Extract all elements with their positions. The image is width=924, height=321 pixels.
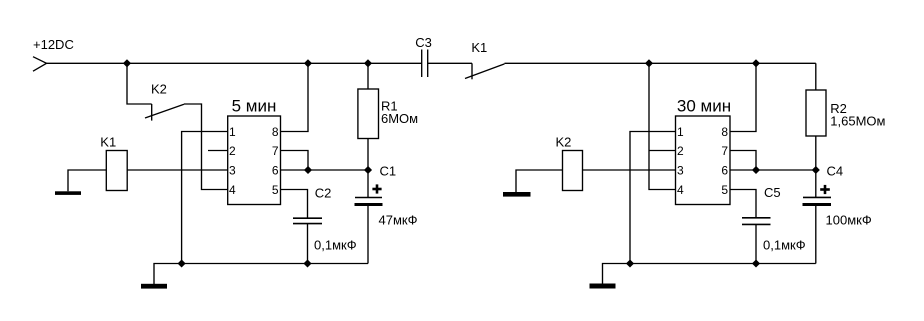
svg-text:3: 3 bbox=[229, 164, 236, 178]
svg-text:47мкФ: 47мкФ bbox=[379, 213, 418, 228]
wire IC1 pin2 stub bbox=[208, 150, 228, 152]
ground bbox=[503, 192, 531, 197]
node junction dot C5 rail bbox=[753, 260, 759, 266]
switch contact K1 bbox=[465, 63, 505, 79]
node junction dot R1/C1 bbox=[365, 167, 371, 173]
node junction dot R2/C4 bbox=[813, 167, 819, 173]
wire IC2 pin5 to C5 bbox=[730, 190, 756, 218]
ground bbox=[590, 284, 616, 289]
wire IC1 pin5 to C2 bbox=[281, 190, 308, 219]
wire K1 coil to ground bbox=[68, 170, 106, 191]
node junction dot at pin8 riser IC1 bbox=[305, 60, 311, 66]
svg-text:4: 4 bbox=[229, 183, 236, 197]
node C1 plus sign bbox=[372, 184, 381, 193]
wire IC2 pin1 to ground rail bbox=[630, 132, 676, 264]
wire right ground rail bbox=[603, 264, 816, 284]
svg-text:C2: C2 bbox=[315, 186, 332, 201]
svg-text:6: 6 bbox=[721, 164, 728, 178]
node +12DC input arrow bbox=[33, 57, 47, 71]
wire IC1 pin3 to relay coil K1 bbox=[127, 169, 228, 171]
svg-text:C1: C1 bbox=[380, 164, 397, 179]
ground bbox=[141, 284, 167, 289]
node junction dot at K2 branch bbox=[124, 60, 130, 66]
switch contact K2 bbox=[145, 104, 184, 121]
wire top rail from arrow to C3 bbox=[47, 62, 422, 64]
svg-text:+12DC: +12DC bbox=[33, 37, 74, 52]
wire IC1 pin6 to R1/C1 node bbox=[281, 169, 369, 171]
wire K2 contact output to IC1 pin4 bbox=[184, 104, 228, 190]
capacitor C1 polarized bbox=[355, 170, 383, 264]
op-amp U1 timer IC box (5 мин) bbox=[228, 116, 281, 205]
capacitor C3 bbox=[422, 50, 428, 78]
svg-text:C5: C5 bbox=[764, 185, 781, 200]
wire IC2 pin8 to top rail bbox=[730, 63, 756, 131]
ground bbox=[55, 191, 81, 195]
node junction dot at IC2 branch bbox=[646, 60, 652, 66]
svg-text:0,1мкФ: 0,1мкФ bbox=[314, 238, 357, 253]
svg-text:5: 5 bbox=[272, 183, 279, 197]
wire IC2 pin7 to pin6 node bbox=[730, 151, 756, 171]
node junction dot pin6/pin7 IC2 bbox=[753, 167, 759, 173]
svg-text:K2: K2 bbox=[556, 135, 572, 150]
svg-text:7: 7 bbox=[272, 144, 279, 158]
svg-text:1: 1 bbox=[229, 125, 236, 139]
svg-text:7: 7 bbox=[721, 144, 728, 158]
svg-text:2: 2 bbox=[677, 144, 684, 158]
capacitor C5 bbox=[742, 218, 771, 225]
svg-text:K1: K1 bbox=[100, 135, 116, 150]
node C4 plus sign bbox=[820, 185, 830, 194]
capacitor C2 bbox=[293, 218, 322, 223]
capacitor C4 polarized bbox=[803, 170, 832, 264]
wire K2 coil to ground bbox=[516, 170, 563, 192]
wire IC2 pin3 to relay coil K2 bbox=[583, 169, 676, 171]
resistor R1 bbox=[358, 63, 379, 170]
wire IC2 pin2 from branch bbox=[649, 150, 676, 152]
wire C5 to ground rail bbox=[755, 224, 757, 263]
svg-text:1: 1 bbox=[677, 125, 684, 139]
wire left ground rail bbox=[154, 264, 368, 285]
wire C2 to ground rail bbox=[307, 224, 309, 264]
svg-text:0,1мкФ: 0,1мкФ bbox=[763, 238, 806, 253]
resistor R2 bbox=[806, 63, 826, 170]
wire K2 branch down from top rail bbox=[127, 63, 152, 104]
svg-text:4: 4 bbox=[677, 183, 684, 197]
svg-text:3: 3 bbox=[677, 164, 684, 178]
node junction dot pin1 rail bbox=[179, 260, 185, 266]
svg-text:C4: C4 bbox=[827, 164, 844, 179]
wire IC1 pin1 to ground rail bbox=[182, 132, 228, 264]
svg-text:C3: C3 bbox=[415, 35, 432, 50]
svg-text:2: 2 bbox=[229, 144, 236, 158]
node junction dot C2 rail bbox=[304, 260, 310, 266]
svg-text:5: 5 bbox=[721, 183, 728, 197]
relay coil K1 bbox=[106, 151, 127, 191]
wire IC2 branch: top rail to pin2 and pin4 bbox=[649, 63, 676, 189]
svg-text:1,65МОм: 1,65МОм bbox=[830, 113, 885, 128]
svg-text:8: 8 bbox=[272, 125, 279, 139]
node junction dot at R1 top bbox=[365, 60, 371, 66]
relay coil K2 bbox=[563, 151, 583, 191]
svg-text:100мкФ: 100мкФ bbox=[826, 213, 872, 228]
node junction dot pin6/pin7 IC1 bbox=[305, 167, 311, 173]
wire IC2 pin6 to R2/C4 node bbox=[730, 169, 816, 171]
svg-text:30 мин: 30 мин bbox=[677, 97, 731, 116]
svg-text:6: 6 bbox=[272, 164, 279, 178]
wire C3 to K1 contact bbox=[428, 62, 472, 64]
node junction dot at pin8 riser IC2 bbox=[753, 60, 759, 66]
svg-text:K2: K2 bbox=[151, 81, 167, 96]
node junction dot IC2 pin1 rail bbox=[627, 260, 633, 266]
svg-text:6МОм: 6МОм bbox=[381, 111, 418, 126]
svg-text:5 мин: 5 мин bbox=[232, 97, 277, 116]
op-amp U2 timer IC box (30 мин) bbox=[676, 116, 731, 205]
wire K1 contact to R2 corner bbox=[505, 62, 816, 64]
wire IC1 pin8 to top rail bbox=[281, 63, 309, 131]
wire IC1 pin7 to pin6 node bbox=[281, 151, 309, 171]
svg-text:8: 8 bbox=[721, 125, 728, 139]
svg-text:K1: K1 bbox=[471, 40, 487, 55]
